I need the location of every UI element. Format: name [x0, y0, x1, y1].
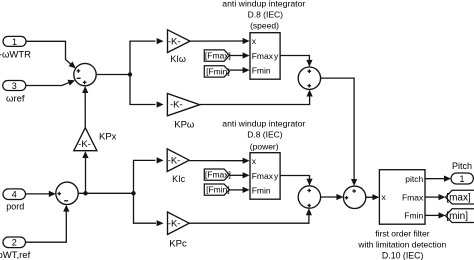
from tag [Fmax] power: [204, 169, 231, 180]
svg-text:pWT,ref: pWT,ref: [0, 250, 31, 260]
svg-text:KPx: KPx: [99, 132, 117, 143]
wire power sum output: [78, 192, 133, 194]
sign + (power sum left): [57, 192, 61, 196]
svg-text:-K-: -K-: [168, 155, 181, 166]
wire branch up to KPx: [82, 151, 88, 193]
wire KI&#969; to integrator x: [190, 38, 250, 44]
gain KPx: [74, 128, 97, 151]
svg-text:[Fmin]: [Fmin]: [206, 185, 230, 195]
svg-text:D.8 (IEC): D.8 (IEC): [247, 130, 283, 140]
from tag [Fmax] speed: [204, 50, 231, 61]
svg-text:Fmax: Fmax: [252, 51, 274, 61]
svg-text:KPω: KPω: [174, 119, 195, 130]
label Pitch: [452, 161, 472, 171]
sign - (speed sum, from wref): [77, 77, 81, 79]
wire Fmin tag to integrator: [229, 67, 249, 73]
wire final sum to filter: [366, 194, 380, 200]
svg-text:KPc: KPc: [169, 238, 187, 249]
label wref: [6, 93, 25, 104]
gain KP&#969;: [167, 94, 199, 116]
svg-text:D.8 (IEC): D.8 (IEC): [248, 9, 284, 19]
svg-text:[Fmin]: [Fmin]: [206, 66, 230, 76]
wire KP&#969; to speed PI sum: [200, 90, 313, 105]
sign + (speed sum, from port1): [77, 69, 81, 73]
svg-text:-ωWTR: -ωWTR: [0, 49, 31, 60]
sign + (speed PI top): [308, 69, 312, 73]
wire branch to KPw: [130, 75, 164, 108]
svg-text:Fmin: Fmin: [404, 211, 423, 221]
label KP&#969;: [174, 119, 195, 130]
wire port4 to power sum: [26, 191, 56, 197]
sign + (power PI top): [307, 189, 311, 193]
svg-text:4: 4: [12, 190, 17, 200]
wire Fmax tag to integrator 2: [229, 172, 249, 178]
gain KIc: [167, 149, 189, 172]
svg-text:pord: pord: [6, 201, 24, 211]
label KI&#969;: [170, 54, 186, 64]
svg-text:3: 3: [12, 81, 17, 91]
svg-text:ωref: ωref: [6, 93, 25, 104]
input port 1 (&#969;WTR): [3, 36, 26, 46]
wire KPc to power PI sum: [189, 208, 312, 223]
wire branch to KIc: [134, 157, 164, 193]
wire branch to KPc: [134, 193, 164, 226]
sign + (speed PI bottom): [308, 84, 312, 88]
svg-text:Pitch: Pitch: [452, 161, 472, 171]
sum junction final: [343, 186, 365, 208]
sum junction speed PI: [298, 67, 320, 89]
label KIc: [172, 174, 186, 184]
sign + (speed sum, from KPx): [83, 81, 87, 85]
svg-text:x: x: [252, 36, 257, 46]
wire KIc to integrator x: [189, 158, 249, 164]
sum junction power PI: [298, 186, 320, 208]
svg-text:x: x: [252, 156, 257, 166]
wire integrator2 y to power PI sum: [280, 176, 313, 186]
wire branch to KIw: [130, 38, 164, 75]
svg-text:y: y: [274, 51, 279, 61]
gain KPc: [168, 212, 190, 235]
svg-text:pitch: pitch: [405, 174, 423, 184]
wire Fmin tag to integrator 2: [229, 187, 249, 193]
junction node to KIc KPc: [131, 191, 135, 195]
title anti windup integrator (speed): [222, 0, 305, 30]
svg-text:with limitation detection: with limitation detection: [357, 239, 446, 249]
sum junction speed error: [74, 63, 96, 85]
sign + (final sum left): [345, 196, 349, 200]
svg-text:[Fmax]: [Fmax]: [205, 170, 231, 180]
svg-text:Fmax: Fmax: [402, 192, 424, 202]
wire Fmax tag to integrator: [229, 52, 249, 58]
wire KPx to speed sum: [82, 86, 88, 128]
svg-text:[max]: [max]: [446, 193, 471, 204]
svg-text:(speed): (speed): [250, 20, 279, 30]
svg-text:Fmin: Fmin: [252, 185, 271, 195]
svg-text:(power): (power): [250, 141, 279, 151]
svg-text:D.10 (IEC): D.10 (IEC): [382, 250, 424, 260]
svg-text:y: y: [274, 171, 279, 181]
label KPc: [169, 238, 187, 249]
svg-text:1: 1: [459, 174, 464, 184]
wire integrator y to speed PI sum: [280, 56, 312, 67]
wire power PI to final sum: [321, 194, 344, 200]
sign + (power PI bottom): [307, 204, 311, 208]
svg-text:-K-: -K-: [78, 139, 91, 150]
wire port2 to power sum: [26, 205, 70, 243]
label pWT,ref: [0, 250, 31, 260]
svg-text:anti windup integrator: anti windup integrator: [222, 118, 305, 128]
goto tag [min]: [446, 209, 474, 223]
svg-text:1: 1: [12, 37, 17, 47]
from tag [Fmin] power: [204, 184, 229, 195]
label KPx: [99, 132, 117, 143]
sum junction power error: [56, 182, 78, 204]
wire Fmax to goto max: [425, 194, 446, 200]
svg-text:-K-: -K-: [168, 218, 181, 229]
first order filter block: [379, 170, 425, 225]
wire port1 to speed sum: [26, 41, 76, 68]
svg-text:Fmin: Fmin: [252, 65, 271, 75]
svg-text:KIc: KIc: [172, 174, 186, 184]
from tag [Fmin] speed: [204, 66, 229, 77]
wire pitch to output port: [425, 176, 451, 182]
input port 3 (&#969;ref): [3, 81, 26, 91]
wire Fmin to goto min: [425, 212, 446, 218]
junction node speed error: [128, 72, 132, 76]
label -wWTR: [0, 49, 31, 60]
junction node to KPx: [83, 191, 87, 195]
output port 1 (Pitch): [451, 173, 473, 184]
svg-text:anti windup integrator: anti windup integrator: [222, 0, 305, 8]
wire speed PI output to final sum: [321, 78, 358, 186]
svg-text:-K-: -K-: [170, 100, 183, 111]
gain KI&#969;: [168, 30, 191, 53]
svg-text:2: 2: [12, 238, 17, 248]
svg-text:[min]: [min]: [446, 211, 468, 222]
svg-text:first order filter: first order filter: [375, 229, 429, 239]
input port 4 (pord): [3, 189, 26, 200]
title anti windup integrator (power): [222, 118, 305, 151]
svg-text:[Fmax]: [Fmax]: [205, 50, 231, 60]
goto tag [max]: [446, 190, 474, 204]
input port 2 (pWT,ref): [3, 237, 26, 248]
sign - (power sum bottom): [64, 200, 68, 202]
svg-text:-K-: -K-: [168, 36, 181, 47]
sign + (final sum top): [352, 189, 356, 193]
svg-text:KIω: KIω: [170, 54, 186, 64]
label first order filter: [357, 229, 446, 260]
svg-text:Fmax: Fmax: [252, 171, 274, 181]
wire speed sum output: [96, 74, 130, 76]
anti-windup integrator block (speed): [250, 33, 280, 79]
anti-windup integrator block (power): [250, 153, 280, 200]
wire port3 to speed sum: [26, 80, 75, 86]
label pord: [6, 201, 24, 211]
